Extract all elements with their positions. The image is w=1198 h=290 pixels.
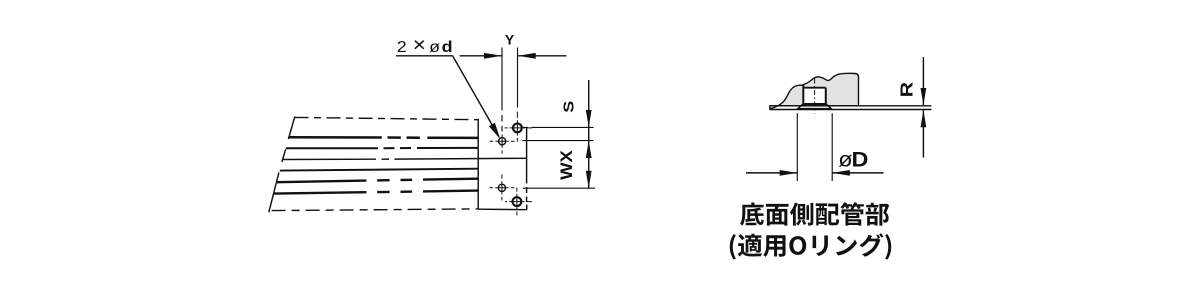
dim oD extension lines <box>797 113 832 181</box>
hole d top (port) <box>499 138 506 145</box>
svg-text:Y: Y <box>505 31 515 47</box>
dim oD arrows <box>780 170 850 176</box>
dim extension line WX bottom <box>523 187 595 189</box>
svg-text:D: D <box>852 147 869 171</box>
hole d bottom (port) <box>498 184 505 191</box>
plate top line <box>770 105 932 107</box>
port cavity <box>804 89 824 104</box>
wire <box>269 173 279 213</box>
svg-text:WX: WX <box>557 150 576 180</box>
hole bottom right (mounting) <box>513 197 522 206</box>
svg-text:×: × <box>413 35 426 57</box>
O-ring flange <box>798 104 832 109</box>
svg-text:S: S <box>560 101 577 113</box>
dim Y line <box>460 55 567 57</box>
caption line2 applicable O-ring <box>730 233 891 259</box>
label 2xod <box>397 35 453 57</box>
wire <box>478 208 527 211</box>
dim Y extension lines <box>501 48 503 132</box>
label oD <box>838 147 868 171</box>
gland seat line <box>803 103 826 105</box>
dim Y arrows <box>484 53 536 59</box>
hole top right (mounting) <box>513 124 522 133</box>
wire <box>288 117 294 139</box>
wire <box>282 149 286 162</box>
port top <box>803 87 826 89</box>
caption line1 bottom-side piping section <box>740 202 889 225</box>
svg-text:R: R <box>897 82 917 98</box>
dim R arrows <box>921 88 927 105</box>
svg-text:ø: ø <box>429 38 440 56</box>
dim extension line S top <box>522 126 594 128</box>
port walls <box>803 85 826 104</box>
wire <box>277 179 478 183</box>
dim R line <box>922 57 924 158</box>
body boss cross-section <box>770 73 859 109</box>
wire <box>477 119 479 210</box>
wire <box>526 128 528 210</box>
dim oD line <box>746 172 884 174</box>
dim extension line S bottom / WX top <box>522 140 593 142</box>
wire <box>295 117 478 119</box>
wire <box>283 158 527 159</box>
wire <box>272 209 478 211</box>
svg-text:d: d <box>442 38 453 56</box>
dim arrows S WX <box>586 110 592 127</box>
leader arrowhead <box>489 123 500 140</box>
dim line S-WX vertical <box>588 80 590 188</box>
svg-text:2: 2 <box>397 38 407 56</box>
wire <box>286 147 478 149</box>
wire <box>289 136 478 139</box>
centerline port <box>814 79 816 114</box>
wire <box>280 169 478 171</box>
wire <box>274 191 478 194</box>
plate bottom line <box>770 109 932 111</box>
leader 2xod <box>396 56 495 129</box>
